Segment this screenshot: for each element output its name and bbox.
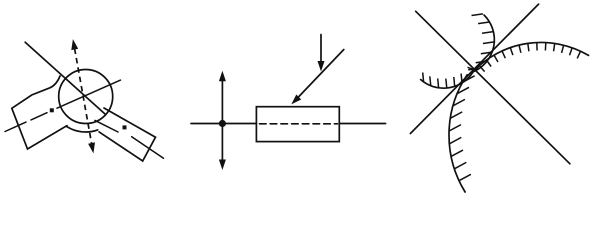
- arrowhead up: [71, 39, 78, 50]
- link 1 centerline: [5, 122, 26, 131]
- node (pivot dot): [219, 120, 226, 127]
- diagonal force arrow shaft: [298, 50, 344, 99]
- wire: [25, 42, 106, 114]
- arrowhead up (vertical dof): [219, 71, 226, 82]
- vertical double-arrow shaft: [221, 78, 223, 162]
- slider centerline (dashed): [260, 123, 338, 125]
- hatching arc B: [479, 66, 484, 72]
- hatching arc D: [422, 73, 425, 82]
- boss arc: [67, 126, 98, 132]
- follower surface arc C: [449, 75, 467, 192]
- cam surface arc A: [473, 15, 494, 72]
- arrowhead down: [88, 142, 95, 153]
- link 1 (left link): [12, 76, 67, 149]
- slider axis line right: [339, 123, 385, 125]
- link 2 (right link): [99, 108, 155, 161]
- pin joint circle: [59, 70, 113, 124]
- arrowhead small vertical: [318, 61, 325, 72]
- rotation axis (dashed): [75, 49, 92, 144]
- arrowhead down (vertical dof): [219, 160, 226, 171]
- hatching arc A: [472, 14, 483, 16]
- common normal line: [416, 11, 570, 164]
- link 2 centerline: [95, 120, 118, 132]
- small vertical arrow shaft: [320, 35, 322, 64]
- link 1 center mark: [50, 108, 54, 112]
- arrowhead diagonal: [291, 95, 301, 105]
- follower surface arc B: [473, 42, 589, 71]
- slider block: [256, 107, 339, 142]
- link 2 center mark: [123, 125, 127, 129]
- common tangent line: [410, 4, 538, 133]
- cam surface arc D: [421, 72, 473, 88]
- slider axis line left: [191, 123, 256, 125]
- hatching arc C: [463, 76, 475, 82]
